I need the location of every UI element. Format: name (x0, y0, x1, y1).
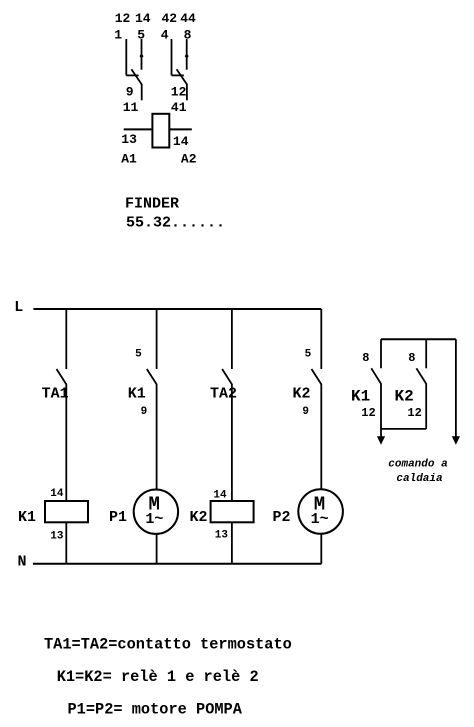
svg-text:K1: K1 (18, 509, 36, 526)
svg-text:P1=P2= motore POMPA: P1=P2= motore POMPA (68, 701, 243, 719)
svg-text:12: 12 (115, 11, 131, 26)
svg-text:5: 5 (135, 349, 142, 361)
svg-text:12: 12 (407, 406, 421, 420)
svg-text:42: 42 (161, 11, 177, 26)
svg-text:K1: K1 (128, 386, 146, 403)
svg-text:5: 5 (305, 349, 312, 361)
svg-text:K2: K2 (395, 388, 414, 406)
svg-text:8: 8 (362, 351, 369, 365)
svg-text:1~: 1~ (145, 511, 163, 528)
svg-text:P1: P1 (109, 509, 127, 526)
svg-text:13: 13 (50, 531, 64, 543)
svg-text:K1=K2= relè 1 e relè 2: K1=K2= relè 1 e relè 2 (57, 668, 259, 686)
svg-text:TA1=TA2=contatto termostato: TA1=TA2=contatto termostato (44, 636, 292, 654)
svg-text:K2: K2 (190, 509, 208, 526)
svg-text:14: 14 (135, 11, 151, 26)
svg-text:55.32......: 55.32...... (126, 214, 225, 231)
svg-text:14: 14 (173, 134, 189, 149)
svg-text:4: 4 (161, 28, 169, 43)
svg-text:A2: A2 (181, 151, 197, 166)
svg-text:1~: 1~ (311, 511, 329, 528)
svg-text:L: L (14, 299, 23, 316)
svg-text:8: 8 (184, 28, 192, 43)
svg-text:12: 12 (361, 406, 375, 420)
svg-text:13: 13 (121, 132, 137, 147)
svg-text:caldaia: caldaia (396, 473, 442, 485)
svg-text:1: 1 (114, 28, 122, 43)
svg-text:9: 9 (302, 406, 309, 418)
svg-text:14: 14 (213, 490, 227, 502)
svg-text:13: 13 (215, 530, 229, 542)
svg-text:12: 12 (171, 85, 187, 100)
svg-text:8: 8 (408, 351, 415, 365)
svg-text:TA2: TA2 (210, 386, 237, 403)
svg-text:P2: P2 (273, 509, 291, 526)
svg-text:9: 9 (126, 85, 134, 100)
svg-text:TA1: TA1 (42, 386, 69, 403)
svg-text:14: 14 (50, 488, 64, 500)
svg-text:comando a: comando a (388, 459, 447, 471)
svg-text:41: 41 (171, 100, 187, 115)
svg-text:FINDER: FINDER (125, 196, 179, 213)
svg-text:A1: A1 (121, 151, 137, 166)
svg-text:11: 11 (123, 100, 139, 115)
svg-text:K1: K1 (351, 388, 370, 406)
svg-text:K2: K2 (293, 386, 311, 403)
svg-text:9: 9 (141, 406, 148, 418)
svg-text:5: 5 (137, 28, 145, 43)
svg-text:44: 44 (180, 11, 196, 26)
svg-text:N: N (18, 553, 27, 570)
